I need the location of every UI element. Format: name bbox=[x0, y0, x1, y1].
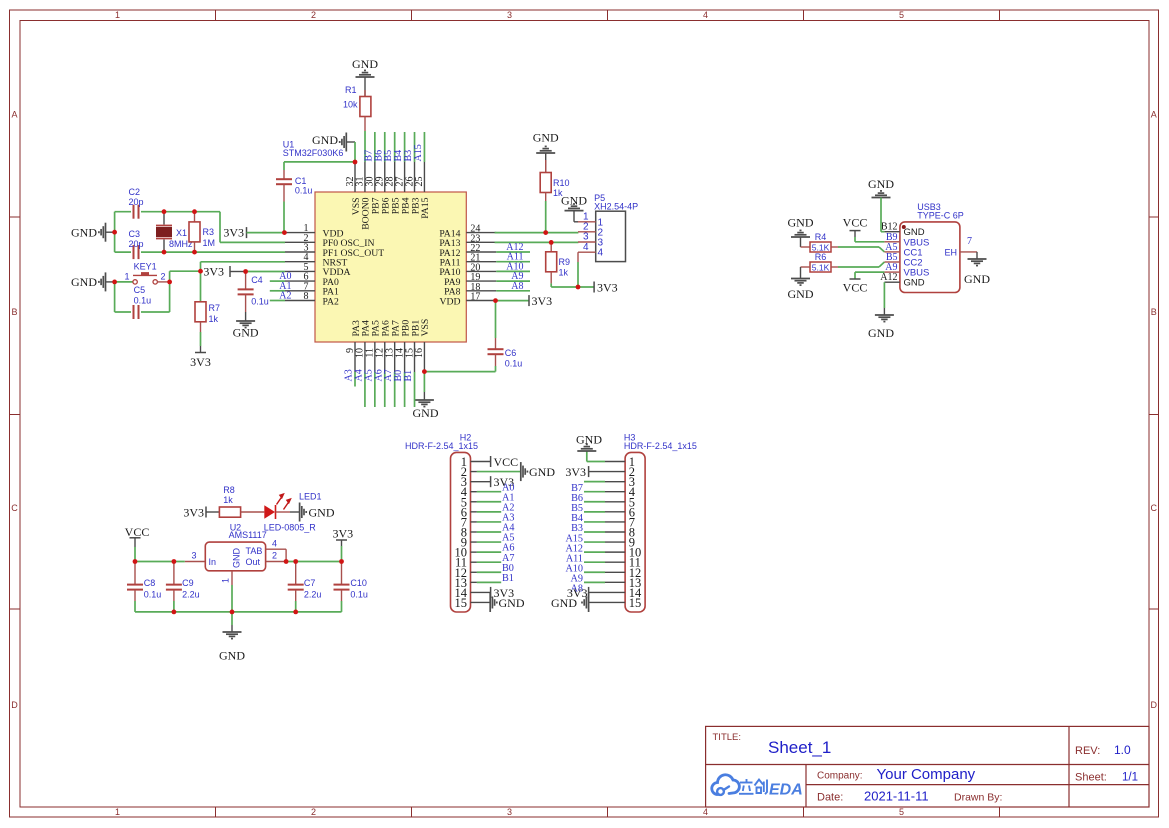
svg-text:REV:: REV: bbox=[1075, 745, 1100, 757]
svg-text:3: 3 bbox=[191, 551, 196, 561]
svg-text:3V3: 3V3 bbox=[223, 226, 244, 240]
svg-text:C: C bbox=[1151, 503, 1158, 513]
svg-text:15: 15 bbox=[629, 596, 642, 610]
svg-text:0.1u: 0.1u bbox=[350, 590, 368, 600]
svg-text:1/1: 1/1 bbox=[1122, 772, 1138, 784]
svg-text:VSS: VSS bbox=[420, 319, 431, 337]
svg-text:5.1K: 5.1K bbox=[812, 242, 830, 252]
svg-text:3V3: 3V3 bbox=[190, 355, 211, 369]
svg-text:TITLE:: TITLE: bbox=[713, 732, 742, 743]
svg-text:R6: R6 bbox=[815, 252, 827, 262]
svg-text:C2: C2 bbox=[129, 187, 141, 197]
svg-text:2: 2 bbox=[311, 10, 316, 20]
svg-text:C10: C10 bbox=[350, 578, 367, 588]
svg-text:GND: GND bbox=[232, 548, 242, 569]
svg-text:Date:: Date: bbox=[817, 792, 843, 804]
svg-text:GND: GND bbox=[352, 57, 378, 71]
svg-text:HDR-F-2.54_1x15: HDR-F-2.54_1x15 bbox=[624, 441, 697, 451]
svg-text:Sheet:: Sheet: bbox=[1075, 772, 1107, 784]
svg-text:D: D bbox=[1151, 700, 1158, 710]
svg-text:15: 15 bbox=[455, 596, 468, 610]
svg-text:R9: R9 bbox=[559, 257, 571, 267]
svg-text:GND: GND bbox=[233, 326, 259, 340]
svg-text:C: C bbox=[11, 503, 18, 513]
svg-text:GND: GND bbox=[529, 465, 555, 479]
svg-text:LED-0805_R: LED-0805_R bbox=[264, 523, 317, 533]
svg-text:GND: GND bbox=[904, 278, 925, 289]
svg-text:A15: A15 bbox=[413, 144, 424, 161]
svg-text:R3: R3 bbox=[203, 227, 215, 237]
svg-text:Your Company: Your Company bbox=[877, 766, 976, 783]
svg-text:Out: Out bbox=[246, 557, 261, 567]
svg-text:1k: 1k bbox=[223, 495, 233, 505]
svg-text:LED1: LED1 bbox=[299, 492, 322, 502]
svg-text:25: 25 bbox=[414, 177, 425, 187]
svg-text:GND: GND bbox=[788, 215, 814, 229]
svg-text:VCC: VCC bbox=[843, 281, 868, 295]
svg-text:C7: C7 bbox=[304, 578, 316, 588]
svg-text:R8: R8 bbox=[223, 485, 235, 495]
svg-text:4: 4 bbox=[598, 248, 604, 259]
svg-text:STM32F030K6: STM32F030K6 bbox=[283, 148, 344, 158]
svg-text:R10: R10 bbox=[553, 178, 570, 188]
svg-text:1.0: 1.0 bbox=[1114, 743, 1131, 757]
svg-text:GND: GND bbox=[71, 225, 97, 239]
svg-text:0.1u: 0.1u bbox=[144, 590, 162, 600]
svg-text:VCC: VCC bbox=[125, 525, 150, 539]
svg-text:3V3: 3V3 bbox=[532, 294, 553, 308]
svg-text:C6: C6 bbox=[505, 348, 517, 358]
svg-text:7: 7 bbox=[967, 236, 972, 247]
svg-text:20p: 20p bbox=[129, 197, 144, 207]
svg-text:In: In bbox=[209, 557, 217, 567]
svg-text:R1: R1 bbox=[345, 85, 357, 95]
svg-text:3V3: 3V3 bbox=[203, 265, 224, 279]
svg-text:0.1u: 0.1u bbox=[295, 186, 313, 196]
svg-text:4: 4 bbox=[272, 539, 277, 549]
svg-text:GND: GND bbox=[219, 649, 245, 663]
svg-text:Company:: Company: bbox=[817, 771, 863, 782]
svg-text:GND: GND bbox=[576, 433, 602, 447]
svg-text:C3: C3 bbox=[129, 229, 141, 239]
svg-text:PA15: PA15 bbox=[420, 197, 431, 218]
svg-text:16: 16 bbox=[414, 348, 425, 358]
svg-text:1k: 1k bbox=[559, 268, 569, 278]
svg-text:2.2u: 2.2u bbox=[182, 590, 200, 600]
svg-text:TAB: TAB bbox=[246, 546, 263, 556]
svg-text:1: 1 bbox=[115, 10, 120, 20]
svg-text:A2: A2 bbox=[279, 291, 291, 302]
svg-text:PA2: PA2 bbox=[323, 296, 339, 307]
svg-text:A12: A12 bbox=[880, 272, 897, 283]
svg-text:A8: A8 bbox=[511, 281, 523, 292]
svg-text:Sheet_1: Sheet_1 bbox=[768, 738, 831, 757]
svg-text:5.1K: 5.1K bbox=[812, 262, 830, 272]
svg-text:2: 2 bbox=[161, 272, 166, 282]
svg-text:EH: EH bbox=[944, 247, 957, 257]
svg-text:1: 1 bbox=[124, 272, 129, 282]
svg-text:10k: 10k bbox=[343, 100, 358, 110]
svg-text:1M: 1M bbox=[203, 238, 216, 248]
svg-text:GND: GND bbox=[533, 131, 559, 145]
svg-text:17: 17 bbox=[470, 292, 480, 303]
svg-text:C5: C5 bbox=[134, 285, 146, 295]
svg-text:C9: C9 bbox=[182, 578, 194, 588]
svg-text:TYPE-C 6P: TYPE-C 6P bbox=[917, 211, 964, 221]
svg-text:AMS1117: AMS1117 bbox=[229, 530, 267, 540]
svg-text:3V3: 3V3 bbox=[565, 465, 586, 479]
svg-text:1k: 1k bbox=[209, 314, 219, 324]
svg-text:D: D bbox=[11, 700, 18, 710]
svg-text:GND: GND bbox=[868, 326, 894, 340]
svg-text:GND: GND bbox=[312, 133, 338, 147]
svg-text:HDR-F-2.54_1x15: HDR-F-2.54_1x15 bbox=[405, 441, 478, 451]
svg-text:GND: GND bbox=[551, 596, 577, 610]
svg-text:5: 5 bbox=[899, 10, 904, 20]
svg-text:5: 5 bbox=[899, 807, 904, 817]
svg-text:GND: GND bbox=[71, 275, 97, 289]
svg-text:Drawn By:: Drawn By: bbox=[954, 792, 1002, 804]
svg-text:VCC: VCC bbox=[494, 455, 519, 469]
svg-text:0.1u: 0.1u bbox=[505, 359, 523, 369]
svg-text:0.1u: 0.1u bbox=[134, 296, 152, 306]
svg-text:3V3: 3V3 bbox=[183, 505, 204, 519]
svg-text:2.2u: 2.2u bbox=[304, 590, 322, 600]
svg-text:VCC: VCC bbox=[843, 216, 868, 230]
svg-text:0.1u: 0.1u bbox=[251, 297, 269, 307]
svg-text:XH2.54-4P: XH2.54-4P bbox=[594, 202, 638, 212]
svg-text:B1: B1 bbox=[403, 370, 414, 382]
svg-text:A: A bbox=[1151, 110, 1157, 120]
svg-text:3V3: 3V3 bbox=[332, 527, 353, 541]
svg-text:GND: GND bbox=[309, 506, 335, 520]
svg-text:4: 4 bbox=[703, 10, 708, 20]
svg-text:KEY1: KEY1 bbox=[134, 262, 157, 272]
svg-text:B: B bbox=[11, 307, 17, 317]
svg-text:X1: X1 bbox=[176, 228, 187, 238]
svg-text:3: 3 bbox=[507, 10, 512, 20]
svg-text:8: 8 bbox=[304, 291, 309, 302]
svg-text:20p: 20p bbox=[129, 239, 144, 249]
svg-text:3V3: 3V3 bbox=[597, 280, 618, 294]
svg-text:4: 4 bbox=[703, 807, 708, 817]
svg-text:GND: GND bbox=[868, 177, 894, 191]
svg-text:GND: GND bbox=[413, 406, 439, 420]
svg-text:2021-11-11: 2021-11-11 bbox=[864, 789, 929, 804]
svg-text:1: 1 bbox=[221, 578, 231, 583]
svg-text:3: 3 bbox=[507, 807, 512, 817]
svg-text:GND: GND bbox=[499, 596, 525, 610]
svg-text:4: 4 bbox=[583, 242, 589, 253]
svg-text:1: 1 bbox=[115, 807, 120, 817]
svg-text:C1: C1 bbox=[295, 176, 307, 186]
svg-text:EDA: EDA bbox=[769, 782, 803, 799]
svg-text:R4: R4 bbox=[815, 232, 827, 242]
svg-text:VDD: VDD bbox=[440, 296, 461, 307]
svg-text:2: 2 bbox=[272, 551, 277, 561]
svg-text:2: 2 bbox=[311, 807, 316, 817]
svg-text:B: B bbox=[1151, 307, 1157, 317]
svg-text:A: A bbox=[11, 110, 17, 120]
svg-text:B1: B1 bbox=[502, 573, 514, 584]
svg-text:R7: R7 bbox=[209, 303, 221, 313]
svg-text:GND: GND bbox=[788, 287, 814, 301]
svg-text:GND: GND bbox=[964, 272, 990, 286]
svg-text:C8: C8 bbox=[144, 578, 156, 588]
svg-text:C4: C4 bbox=[251, 275, 263, 285]
